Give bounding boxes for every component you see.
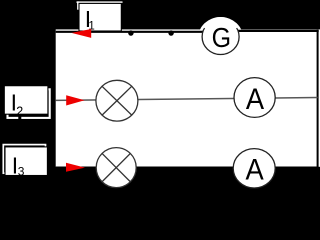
svg-text:2: 2 <box>16 104 23 118</box>
current arrow for I2 (points right) <box>66 95 84 105</box>
label I2 (current in middle branch) <box>4 86 49 120</box>
wire: top side, left of generator <box>56 31 203 33</box>
junction dot on top wire (right) <box>168 30 173 35</box>
wire: bottom side <box>56 166 319 168</box>
ammeter A1 (middle branch) <box>234 78 275 118</box>
svg-text:3: 3 <box>18 165 25 179</box>
wire: middle branch <box>56 98 318 101</box>
svg-text:A: A <box>245 153 264 186</box>
circuit interior (white panel bounded by the wire loop) <box>56 29 320 166</box>
generator G white halo backing <box>198 17 243 59</box>
current arrow for I1 (points left) <box>71 29 91 38</box>
svg-text:A: A <box>246 83 265 116</box>
wire: right side <box>317 30 319 167</box>
svg-text:G: G <box>212 22 231 53</box>
label I3 (current in bottom branch) <box>3 145 47 179</box>
wire: top side, right of generator <box>238 30 319 32</box>
ammeter A2 (bottom branch) <box>233 149 275 188</box>
lamp L1 (middle branch) <box>96 80 138 121</box>
label I1 (current in top wire) <box>77 1 123 32</box>
junction dot on top wire (left) <box>128 30 133 35</box>
current arrow for I3 (points right) <box>66 163 85 172</box>
lamp L2 (bottom branch) <box>96 148 136 188</box>
generator G <box>202 19 239 54</box>
